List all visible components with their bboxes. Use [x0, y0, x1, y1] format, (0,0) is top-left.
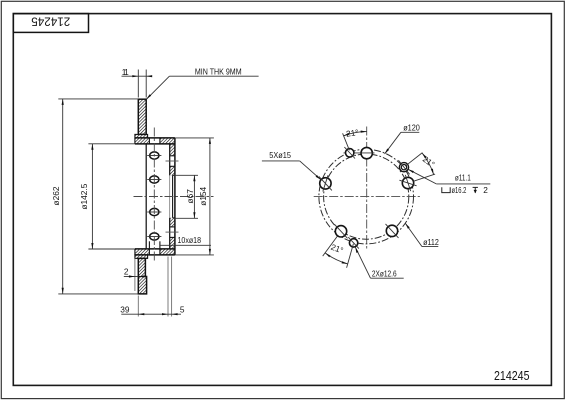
wheel stud hole gap bottom [170, 226, 175, 228]
svg-text:ø262: ø262 [51, 186, 61, 205]
dimensions 39 and 5 [137, 296, 139, 317]
svg-text:2: 2 [483, 185, 488, 195]
svg-text:2Xø12.6: 2Xø12.6 [372, 268, 397, 278]
hole H4 (d11.1 with d16.2 counterbore) [399, 163, 408, 172]
21 deg dim top (H1-H2) [343, 133, 350, 150]
svg-text:ø120: ø120 [403, 123, 420, 133]
svg-text:214245: 214245 [31, 15, 70, 27]
depth symbol [473, 186, 478, 188]
svg-text:10xø18: 10xø18 [178, 235, 202, 245]
band outlines bottom [135, 248, 175, 250]
hole H5 right (d15) [402, 177, 413, 188]
centerlines [366, 127, 368, 249]
bolt hole walls in bottom band [148, 241, 150, 255]
svg-text:11: 11 [122, 67, 129, 77]
hub wall hatched segment C [170, 218, 175, 227]
hat flange band bottom-right [160, 249, 175, 255]
hole H8 bottom (d12.6) [349, 239, 357, 247]
disc friction ring top (section) [138, 99, 146, 134]
disc top foot [135, 134, 148, 138]
hub box left edge [145, 144, 147, 249]
svg-text:5: 5 [180, 304, 185, 314]
svg-text:39: 39 [120, 304, 130, 314]
disc friction ring bottom with wear step [138, 258, 146, 294]
21 deg dim bottom-left (H7-H8) [323, 236, 338, 256]
vertical bolt centerline [153, 128, 155, 262]
svg-text:MIN THK 9MM: MIN THK 9MM [195, 67, 242, 77]
svg-text:2: 2 [124, 267, 129, 277]
hub wall hatched segment B [170, 166, 175, 175]
wheel stud hole gap top [170, 155, 175, 157]
hat flange band top-right [160, 138, 175, 144]
bolt hole walls in top band [148, 138, 150, 144]
hub wall left edge [169, 144, 171, 176]
centre bore edge [172, 175, 174, 217]
svg-text:ø142.5: ø142.5 [79, 183, 89, 209]
band outlines top [135, 137, 175, 139]
hat flange band top-left [135, 138, 150, 144]
hat flange band bottom-left [135, 249, 150, 255]
disc bottom foot [135, 255, 148, 259]
bolt holes (ovals) in hub section [150, 152, 159, 159]
horizontal axis centerline [134, 196, 214, 198]
hole H6 bottom-right (d15) [386, 225, 397, 236]
hub wall hatched segment A [170, 144, 175, 156]
svg-text:ø112: ø112 [423, 237, 439, 247]
wear step line across bottom ring [138, 276, 146, 278]
svg-text:21°: 21° [345, 127, 359, 139]
svg-text:214245: 214245 [494, 369, 530, 383]
21 deg dim right (H4-H5) [405, 153, 422, 167]
circle d112 [324, 154, 409, 239]
hole H3 left (d15) [320, 178, 331, 189]
hub wall hatched segment D [170, 237, 175, 249]
hole H7 bottom-left (d15) [335, 226, 346, 237]
svg-text:ø11.1: ø11.1 [455, 173, 471, 183]
dimension 2 (wear step) [134, 259, 136, 292]
hole H2 (d12.6) [346, 149, 354, 157]
svg-text:5Xø15: 5Xø15 [269, 150, 291, 160]
svg-text:ø16.2: ø16.2 [452, 185, 467, 195]
svg-text:ø154: ø154 [198, 186, 208, 205]
label 10xd18 [160, 244, 211, 246]
hole H1 top (d15) [361, 147, 372, 158]
part number top-left (rotated 180) [31, 15, 70, 27]
hub wall right edge [174, 138, 176, 255]
dimension d67 [173, 174, 198, 176]
dimension d142.5 [88, 143, 134, 145]
bolt circle d120 [319, 149, 414, 244]
counterbore symbol [442, 187, 450, 192]
dimension 11 [137, 70, 139, 98]
title box top-left [13, 14, 88, 33]
leader MIN THK 9MM [146, 76, 169, 99]
svg-text:ø67: ø67 [185, 189, 195, 204]
dimension d154 [175, 137, 214, 139]
dimension d262 [58, 98, 138, 100]
